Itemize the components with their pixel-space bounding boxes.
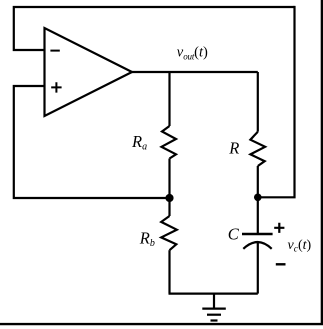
ground [202,294,226,321]
wire (Rb top lead) [168,198,170,216]
wire (R bottom lead) [257,166,259,197]
wire (feedback right leg down to node B) [258,6,295,197]
capacitor C [242,234,273,249]
wire (capacitor top lead) [257,197,259,234]
wire (Rb bottom lead) [168,250,170,293]
label + polarity [274,223,284,233]
resistor Ra [162,126,177,159]
label − polarity [276,263,286,265]
wire (capacitor bottom lead) [257,243,259,294]
op-amp U1 [45,28,133,116]
svg-text:C: C [228,224,240,243]
resistor R [250,132,265,166]
wire (noninverting input, left leg, bottom-left horizontal to node A) [14,86,170,198]
svg-text:vout(t): vout(t) [177,45,208,62]
wire (op-amp output) [131,71,258,73]
node B junction [254,194,262,202]
svg-text:Rb: Rb [139,229,155,249]
resistor Rb [161,216,177,250]
svg-text:R: R [228,139,239,158]
svg-text:Ra: Ra [131,132,147,152]
wire (R top lead) [257,72,259,132]
node A junction [165,194,173,202]
svg-text:vc(t): vc(t) [288,238,312,255]
wire (inverting input to feedback top) [14,7,295,50]
wire (Ra top lead) [168,72,170,126]
wire (Ra bottom lead) [168,159,170,199]
wire (bottom rail) [169,293,258,295]
